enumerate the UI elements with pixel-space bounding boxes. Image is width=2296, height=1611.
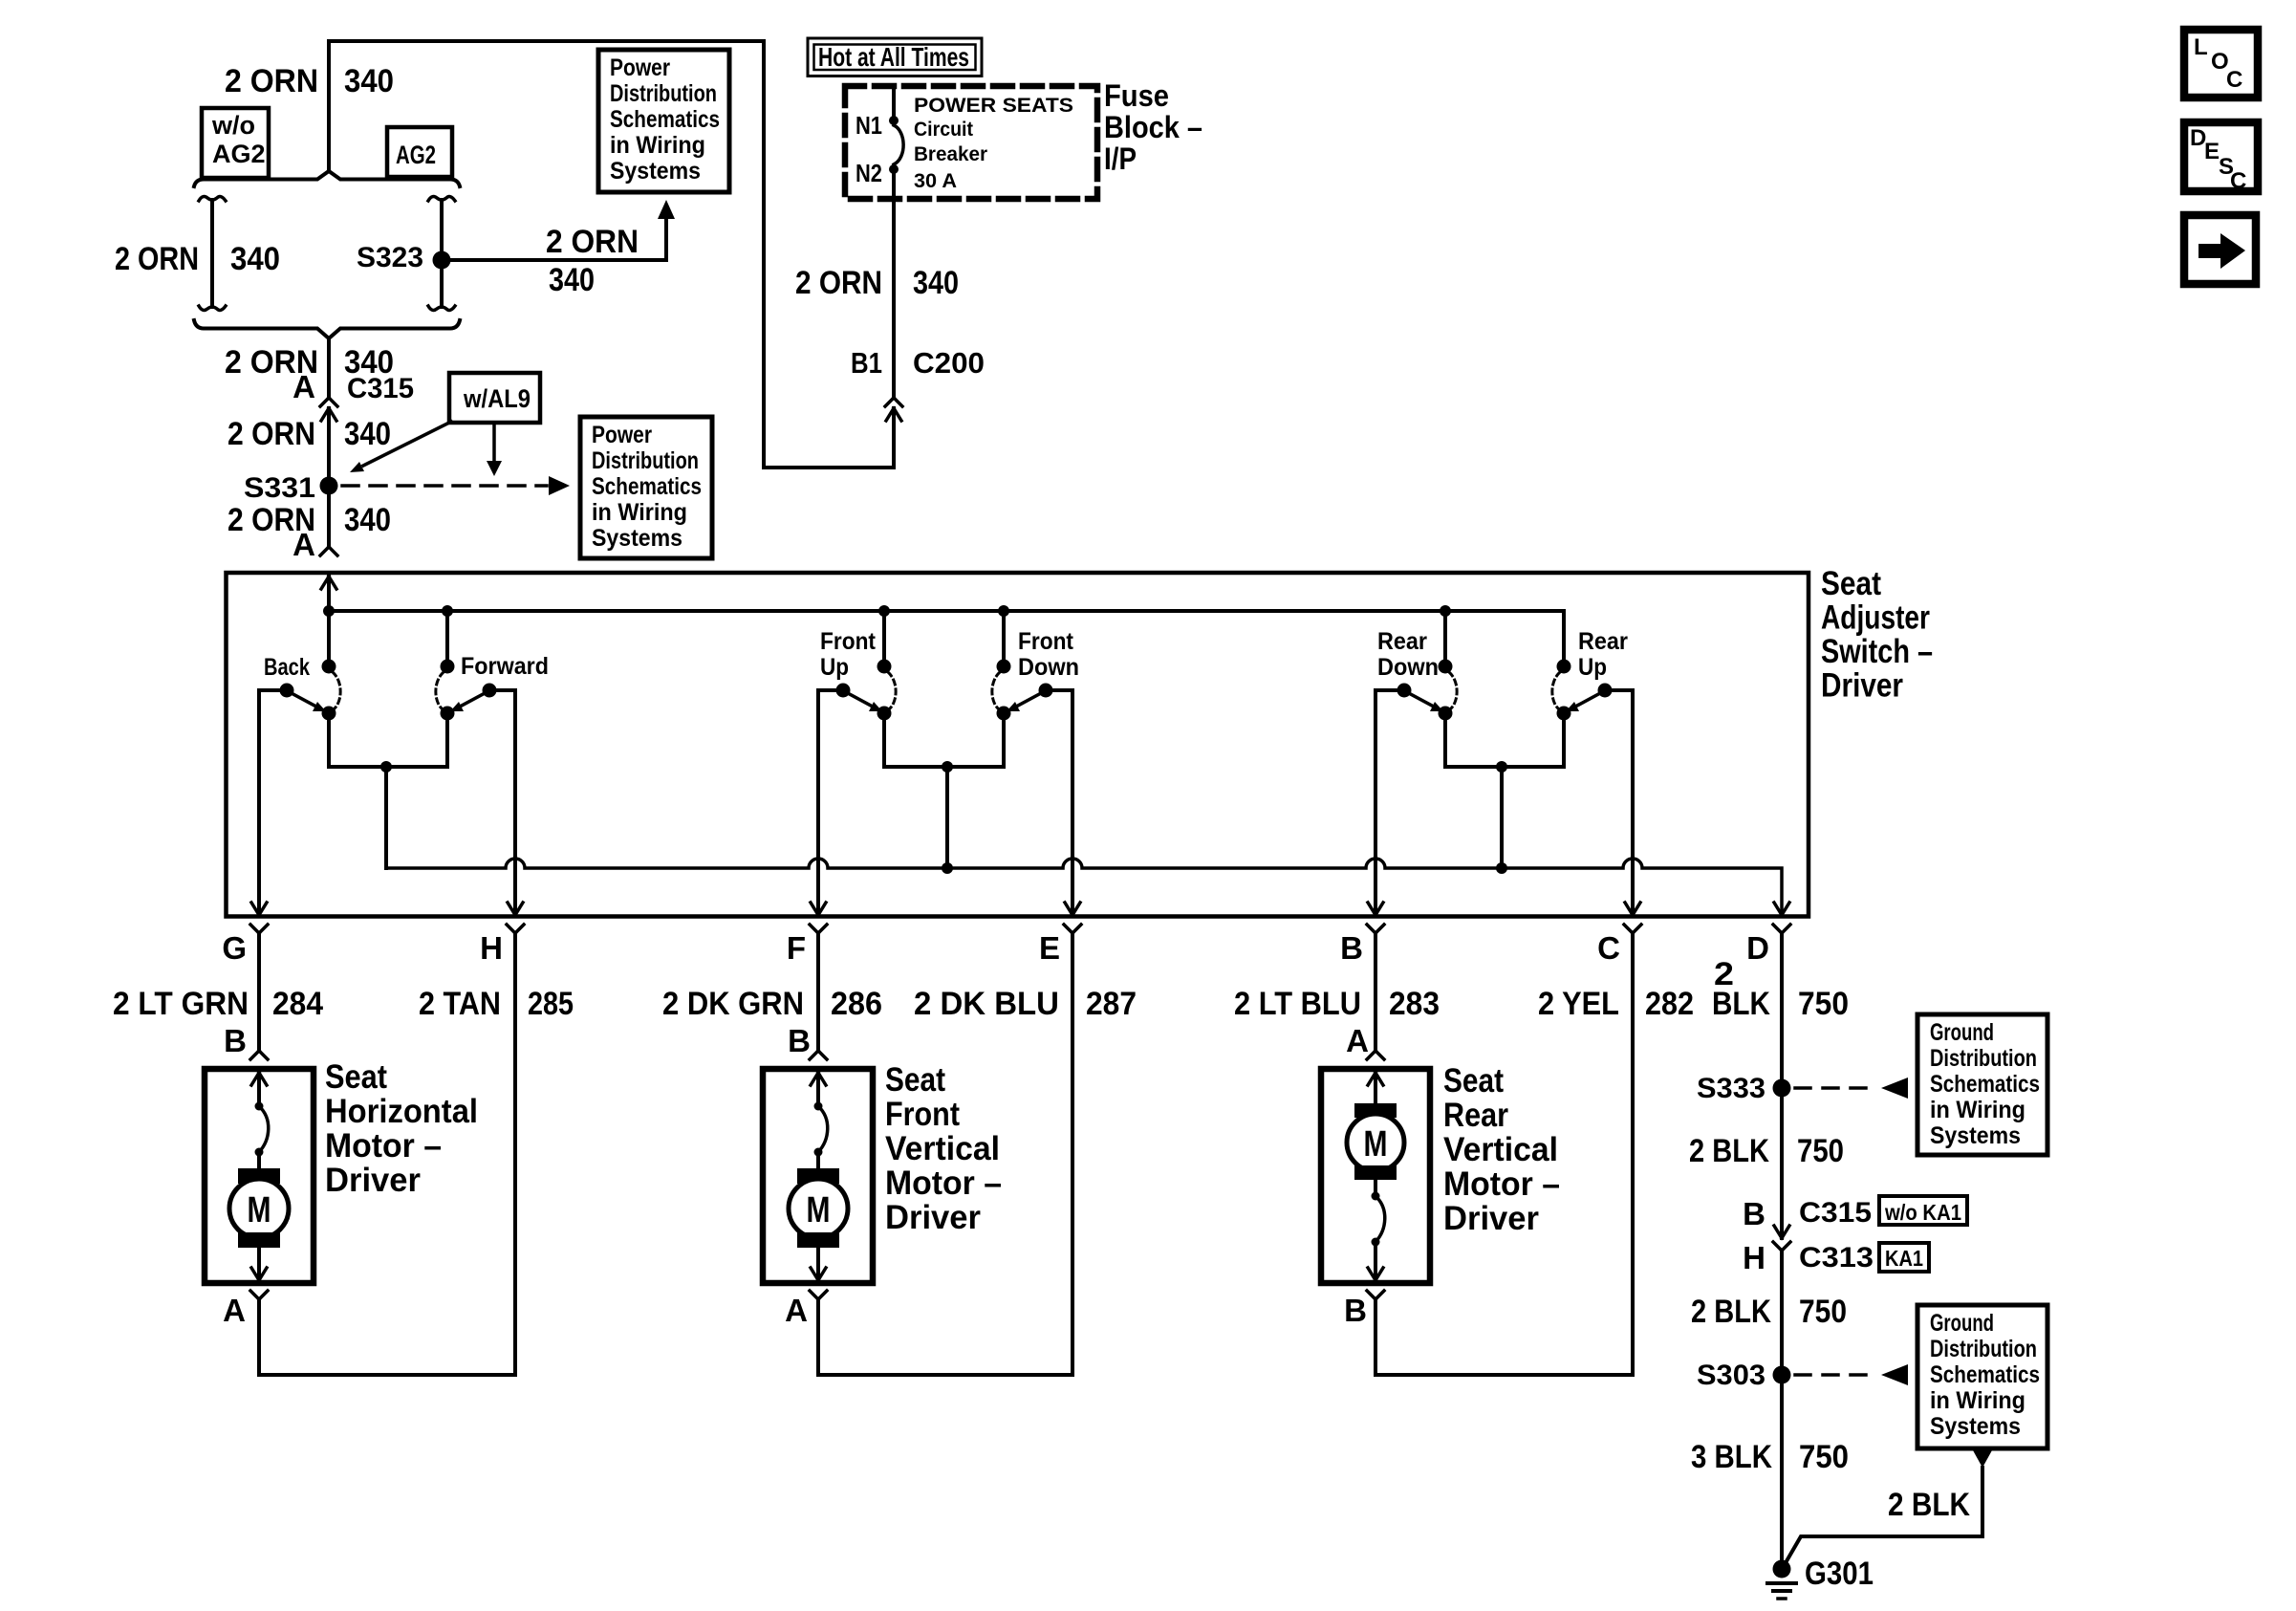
option box w/o AG2 (202, 108, 269, 178)
Hot at All Times box (808, 38, 982, 76)
wire back-forward center tap (329, 765, 447, 769)
wire 2 BLK from reference (1784, 1468, 1982, 1566)
svg-text:Rear: Rear (1377, 628, 1427, 655)
svg-text:Forward: Forward (461, 653, 549, 680)
node bus front-down (998, 605, 1009, 617)
svg-text:I/P: I/P (1104, 142, 1137, 176)
dashed arrow S331 to reference (342, 484, 547, 488)
svg-text:G: G (222, 930, 247, 966)
svg-text:Seat: Seat (1443, 1062, 1504, 1099)
svg-text:Front: Front (1018, 628, 1074, 655)
svg-text:Power: Power (610, 54, 670, 81)
wire into breaker (892, 89, 896, 116)
motor box Seat Horizontal Motor - Driver (205, 1069, 314, 1283)
svg-text:C315: C315 (347, 373, 414, 404)
fuse block dashed box (845, 86, 1097, 199)
pin D (1774, 903, 1782, 915)
svg-text:N1: N1 (856, 111, 882, 140)
wire 284 pin G (257, 933, 261, 1051)
svg-text:S323: S323 (357, 242, 423, 273)
svg-text:BLK: BLK (1712, 986, 1770, 1022)
option tag KA1 (1879, 1243, 1929, 1272)
svg-text:Distribution: Distribution (610, 80, 717, 107)
motor 2 symbol (811, 1073, 818, 1085)
node bus rear-down (1440, 605, 1451, 617)
svg-text:D: D (1746, 930, 1769, 966)
svg-text:750: 750 (1799, 1294, 1847, 1330)
wire front center tap (884, 765, 1004, 769)
svg-text:Power: Power (592, 422, 652, 448)
svg-text:AG2: AG2 (212, 140, 266, 168)
svg-text:H: H (480, 930, 503, 966)
svg-text:Down: Down (1018, 654, 1079, 681)
switch Forward (445, 611, 449, 660)
svg-text:Distribution: Distribution (592, 447, 699, 474)
svg-text:2 ORN: 2 ORN (115, 241, 199, 277)
svg-text:A: A (1346, 1023, 1369, 1058)
svg-text:Rear: Rear (1578, 628, 1628, 655)
svg-text:Seat: Seat (1821, 565, 1881, 602)
svg-text:2 BLK: 2 BLK (1691, 1294, 1771, 1330)
svg-text:B: B (1344, 1293, 1367, 1328)
svg-text:H: H (1743, 1240, 1765, 1275)
svg-text:Circuit: Circuit (914, 119, 973, 141)
svg-text:2 YEL: 2 YEL (1538, 986, 1619, 1022)
svg-text:E: E (2204, 139, 2220, 164)
svg-text:Motor –: Motor – (885, 1165, 1002, 1202)
motor 1 symbol (251, 1073, 259, 1085)
svg-text:A: A (785, 1293, 808, 1328)
node back-forward center (380, 761, 392, 773)
svg-text:Seat: Seat (885, 1061, 945, 1099)
svg-text:2 DK GRN: 2 DK GRN (662, 986, 804, 1022)
svg-text:C: C (2230, 168, 2246, 194)
svg-text:750: 750 (1797, 1133, 1844, 1169)
node rear center (1496, 761, 1507, 773)
ground G301 (1773, 1560, 1791, 1578)
pin H (508, 903, 515, 915)
wire motor 1 loop (257, 1299, 261, 1375)
pin A arrow into switch (321, 577, 329, 589)
svg-text:A: A (292, 369, 315, 404)
svg-text:in Wiring: in Wiring (610, 132, 705, 159)
svg-text:340: 340 (344, 416, 391, 452)
dashed arrow S303 to reference (1795, 1373, 1875, 1377)
svg-text:340: 340 (913, 265, 959, 301)
svg-text:Vertical: Vertical (885, 1130, 1000, 1167)
svg-text:2 DK BLU: 2 DK BLU (914, 986, 1059, 1022)
svg-text:2 ORN: 2 ORN (225, 63, 318, 99)
legend box LOC (2184, 30, 2258, 98)
svg-text:285: 285 (528, 986, 574, 1022)
svg-text:2 BLK: 2 BLK (1888, 1487, 1970, 1523)
svg-text:Adjuster: Adjuster (1821, 599, 1930, 637)
switch Back (327, 611, 331, 660)
svg-text:Front: Front (885, 1096, 960, 1133)
reference box Power Distribution Schematics (top) (598, 50, 729, 192)
wire C200 to switch feed (329, 41, 894, 468)
legend box DESC (2184, 122, 2258, 191)
wire S323 tap (442, 218, 666, 260)
svg-text:in Wiring: in Wiring (1930, 1097, 2025, 1123)
svg-text:F: F (787, 930, 806, 966)
svg-text:w/o: w/o (211, 111, 255, 140)
seat adjuster switch box (227, 573, 1809, 917)
node common front (942, 862, 953, 874)
legend box forward arrow (2184, 215, 2256, 284)
svg-text:Schematics: Schematics (610, 106, 720, 133)
svg-text:Hot at All Times: Hot at All Times (818, 42, 969, 72)
motor 1 pin A (250, 1291, 259, 1299)
common return wire (386, 859, 1782, 915)
wire 340 breaker to C200 (892, 174, 896, 398)
svg-text:Block –: Block – (1104, 110, 1202, 144)
svg-text:S331: S331 (244, 472, 315, 504)
svg-text:C200: C200 (913, 346, 985, 380)
reference box Ground Distribution Schematics (lower) (1917, 1305, 2047, 1448)
brace top (194, 171, 460, 186)
svg-text:C315: C315 (1799, 1197, 1872, 1229)
svg-text:Fuse: Fuse (1104, 78, 1169, 113)
node bus forward (442, 605, 453, 617)
bracket left (199, 197, 226, 201)
option box AG2 (387, 127, 452, 177)
arrow w/AL9 to S331 (363, 422, 451, 466)
svg-text:E: E (1039, 930, 1060, 966)
svg-text:B: B (224, 1023, 247, 1058)
svg-text:B: B (1340, 930, 1363, 966)
svg-text:2 LT GRN: 2 LT GRN (113, 986, 249, 1022)
svg-text:Systems: Systems (610, 158, 701, 185)
wire 287 pin E (1071, 933, 1074, 1375)
wire 750 pin D middle (1780, 1251, 1784, 1559)
svg-text:Breaker: Breaker (914, 143, 987, 165)
svg-text:S303: S303 (1697, 1360, 1765, 1391)
svg-text:Schematics: Schematics (1930, 1071, 2040, 1098)
node bus front-up (878, 605, 890, 617)
node common rear (1496, 862, 1507, 874)
svg-text:C313: C313 (1799, 1242, 1874, 1274)
wire below brace (327, 339, 331, 398)
svg-text:S333: S333 (1697, 1073, 1765, 1104)
svg-text:30 A: 30 A (914, 170, 957, 192)
svg-text:2 LT BLU: 2 LT BLU (1234, 986, 1361, 1022)
svg-text:Systems: Systems (1930, 1413, 2021, 1440)
switch Front Down (1002, 611, 1006, 660)
svg-text:AG2: AG2 (396, 141, 436, 169)
svg-text:Rear: Rear (1443, 1097, 1508, 1134)
dashed arrow S333 to reference (1795, 1086, 1875, 1090)
svg-text:B1: B1 (851, 346, 882, 380)
svg-text:M: M (1364, 1124, 1388, 1165)
svg-text:750: 750 (1799, 1439, 1849, 1475)
svg-text:C: C (2226, 67, 2242, 93)
switch Rear Up (1557, 660, 1571, 674)
switch Rear Down (1443, 611, 1447, 660)
svg-text:340: 340 (344, 502, 391, 538)
svg-text:in Wiring: in Wiring (1930, 1387, 2025, 1414)
svg-text:Motor –: Motor – (325, 1127, 442, 1165)
svg-text:2 ORN: 2 ORN (795, 265, 882, 301)
arrow from reference to 2 BLK wire (1973, 1450, 1992, 1468)
bracket right (428, 197, 455, 201)
bus wire (329, 611, 1564, 660)
svg-text:Driver: Driver (1821, 667, 1903, 705)
svg-text:Up: Up (820, 654, 849, 681)
pin G (251, 903, 259, 915)
motor 2 pin A (810, 1291, 818, 1299)
motor box Seat Rear Vertical Motor - Driver (1321, 1069, 1430, 1283)
svg-text:B: B (788, 1023, 811, 1058)
pin B (1368, 903, 1375, 915)
node bus entry (323, 605, 335, 617)
svg-text:340: 340 (344, 63, 394, 99)
svg-text:Schematics: Schematics (592, 473, 702, 500)
svg-text:M: M (807, 1190, 831, 1230)
svg-text:Schematics: Schematics (1930, 1361, 2040, 1388)
node front center (942, 761, 953, 773)
svg-text:Front: Front (820, 628, 877, 655)
option tag w/o KA1 (1879, 1196, 1967, 1225)
svg-text:Driver: Driver (885, 1199, 981, 1236)
svg-text:750: 750 (1798, 986, 1849, 1022)
svg-text:C: C (1597, 930, 1620, 966)
svg-text:A: A (223, 1293, 246, 1328)
svg-text:Distribution: Distribution (1930, 1045, 2037, 1072)
svg-text:282: 282 (1645, 986, 1694, 1022)
motor 3 symbol (1368, 1073, 1375, 1085)
svg-text:L: L (2194, 34, 2208, 60)
svg-text:KA1: KA1 (1885, 1246, 1923, 1271)
svg-text:284: 284 (272, 986, 323, 1022)
motor box Seat Front Vertical Motor - Driver (763, 1069, 873, 1283)
option box w/AL9 (449, 373, 540, 423)
brace bottom (194, 320, 460, 338)
svg-text:Down: Down (1377, 654, 1439, 681)
svg-text:2 ORN: 2 ORN (546, 224, 639, 260)
svg-text:Distribution: Distribution (1930, 1336, 2037, 1362)
wire 285 pin H (513, 933, 517, 1375)
svg-text:G301: G301 (1805, 1556, 1874, 1592)
wire 286 pin F (816, 933, 820, 1051)
svg-text:Motor –: Motor – (1443, 1165, 1560, 1203)
svg-text:287: 287 (1086, 986, 1137, 1022)
svg-text:Horizontal: Horizontal (325, 1093, 478, 1130)
svg-text:340: 340 (549, 262, 595, 298)
svg-text:Back: Back (264, 654, 310, 681)
svg-text:283: 283 (1389, 986, 1440, 1022)
svg-text:Ground: Ground (1930, 1310, 1994, 1337)
pin C (1625, 903, 1633, 915)
svg-text:POWER SEATS: POWER SEATS (914, 95, 1073, 117)
svg-text:w/AL9: w/AL9 (463, 384, 531, 413)
svg-text:2 BLK: 2 BLK (1689, 1133, 1769, 1169)
svg-text:Up: Up (1578, 654, 1607, 681)
svg-text:Systems: Systems (1930, 1122, 2021, 1149)
pin E (1065, 903, 1072, 915)
connector fork into switch (320, 547, 329, 555)
circuit breaker element (894, 125, 903, 164)
svg-text:w/o KA1: w/o KA1 (1884, 1200, 1961, 1225)
wire motor 3 loop (1374, 1299, 1377, 1375)
reference box Ground Distribution Schematics (upper) (1917, 1014, 2047, 1155)
wire 282 pin C (1631, 933, 1635, 1375)
pin F (811, 903, 818, 915)
svg-text:M: M (248, 1190, 271, 1230)
reference box Power Distribution Schematics (middle) (580, 417, 712, 558)
wire 750 pin D upper (1780, 933, 1784, 1238)
wire C315 to S331 (327, 408, 331, 547)
svg-text:2 ORN: 2 ORN (227, 416, 315, 452)
svg-text:286: 286 (831, 986, 882, 1022)
wire rear center tap (1445, 765, 1564, 769)
svg-text:Switch –: Switch – (1821, 633, 1933, 670)
svg-text:B: B (1743, 1196, 1765, 1231)
svg-text:340: 340 (230, 241, 280, 277)
switch Front Up (882, 611, 886, 660)
svg-text:A: A (292, 527, 315, 562)
svg-text:N2: N2 (856, 159, 882, 187)
wire 283 pin B (1374, 933, 1377, 1051)
svg-text:Vertical: Vertical (1443, 1131, 1558, 1168)
svg-text:Driver: Driver (325, 1162, 421, 1199)
svg-text:in Wiring: in Wiring (592, 499, 687, 526)
arrow w/AL9 down (492, 423, 496, 461)
svg-text:Seat: Seat (325, 1058, 387, 1096)
wire motor 2 loop (816, 1299, 820, 1375)
svg-text:2 TAN: 2 TAN (419, 986, 501, 1022)
svg-text:3 BLK: 3 BLK (1691, 1439, 1772, 1475)
arrow to Power Distribution (top) (658, 200, 675, 219)
svg-text:Systems: Systems (592, 525, 682, 552)
svg-text:Driver: Driver (1443, 1200, 1539, 1237)
motor 3 pin B (1367, 1291, 1375, 1299)
svg-text:Ground: Ground (1930, 1019, 1994, 1046)
